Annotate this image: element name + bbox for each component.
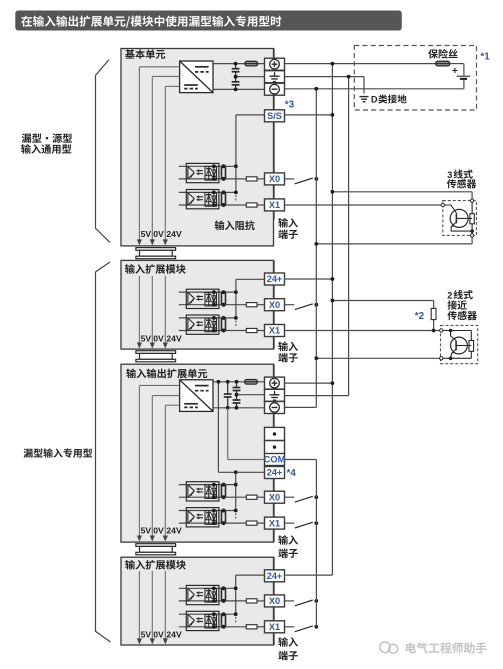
24V bus rail [331,64,333,575]
24V bus to 24+ (module 2) [285,574,332,576]
wire 24V bus to 3-wire sensor [332,191,472,193]
terminal X0 (module 2) [265,595,285,607]
svg-text:24V: 24V [166,333,182,343]
D-class earth symbol [360,96,369,98]
wire - output (block3) [213,407,265,409]
label input terminals (module 2) [278,637,288,647]
power supply U2 (I/O expansion unit) [180,380,213,412]
3-wire sensor internals [471,201,473,236]
rails 5V 0V 24V with arrows (module 1) [138,276,140,347]
svg-text:X0: X0 [269,492,280,502]
wire + output to terminal [213,63,265,65]
capacitor column 2 (block3) [236,382,238,388]
wire + (I/O unit) to 24V bus [285,382,333,384]
input switch X1 (module 2) [285,626,295,628]
earth bus to ground terminal (I/O unit) [285,395,349,397]
svg-text:COM: COM [264,455,286,465]
block: input expansion module 1 [121,260,274,349]
svg-text:X1: X1 [269,622,280,632]
svg-text:5V: 5V [141,333,152,343]
capacitor column 1 (block3) [227,382,229,394]
capacitor column (basic unit) [235,64,237,69]
svg-text:0V: 0V [153,629,164,639]
terminal - (I/O unit) [265,402,285,414]
svg-text:24V: 24V [166,629,182,639]
title bar [15,11,402,31]
terminal 24+ (module 1) [265,273,285,285]
battery B1 [463,64,465,76]
wire + (basic unit) to fuse circuit [285,63,436,65]
3-wire sensor box [443,201,477,236]
label input impedance [215,221,225,231]
terminal strip (module 1) [273,260,275,273]
optocoupler input X0 (I/O unit) [179,484,236,486]
block: basic unit [121,49,274,246]
wire 0V bus to 3-wire sensor [316,243,472,245]
svg-text:D: D [371,95,378,105]
label input terminals (basic unit) [278,218,288,228]
svg-text:0V: 0V [153,229,164,239]
svg-text:24V: 24V [166,229,182,239]
svg-text:+: + [452,66,458,77]
COM feed vertical from 0V (block3) [227,408,229,460]
svg-text:X0: X0 [269,300,280,310]
wire 0V bus to 2-wire sensor [316,357,441,359]
terminal + (basic unit) [265,58,285,70]
fuse symbol [436,61,450,66]
rails 5V 0V 24V with arrows (module 2) [138,571,140,643]
power supply U1 (basic unit) [180,61,213,93]
terminal COM [265,454,285,466]
terminal S/S [265,110,285,122]
block: I/O expansion unit [121,364,274,542]
wire 24V bus to bleeder resistor [332,300,433,302]
watermark text [406,642,416,653]
wire + output (block3) [213,381,265,383]
svg-text:X0: X0 [269,174,280,184]
fuse on + wire (block3) [245,380,258,385]
terminal + (I/O unit) [265,377,285,389]
earth bus rail [348,77,350,396]
spare terminal dot 2 [265,441,285,454]
input switch X0 (I/O unit) [285,496,295,498]
wire ground (basic unit) to D-class earth [285,76,365,78]
input switch X0 (module 2) [285,600,295,602]
terminal 24+ (I/O unit) [265,467,285,479]
wire 0V (block3) [152,395,179,397]
wire ground mid (basic unit) [236,76,265,78]
terminal X1 (basic unit) [265,199,285,211]
label: sink/source input universal type [22,133,31,143]
optocoupler input X0 (module 1) [179,291,236,293]
wire 5V (block3) [139,384,179,386]
watermark logo [380,642,391,653]
wire 5V from power supply to rail [139,66,179,68]
24+ distribution wire and rail (module 2) [236,574,265,576]
label input terminals (I/O unit) [278,535,288,545]
svg-text:24+: 24+ [267,468,283,478]
spare terminal dot 1 [265,427,285,440]
wire S/S to 24V bus [285,114,333,116]
rails 5V 0V 24V with arrows (basic unit) [138,67,140,244]
svg-text:24+: 24+ [267,274,283,284]
optocoupler input X1 (module 2) [179,613,236,615]
switch common rail [315,460,317,627]
input switch X1 (I/O unit) [285,522,295,524]
junction dots on cap column [234,62,238,66]
terminal strip (module 2) [273,557,275,570]
dashed box: external supply circuit [354,46,476,111]
terminal X1 (module 1) [265,325,285,337]
svg-text:5V: 5V [141,526,152,536]
label: sink input dedicated type [24,448,33,457]
wire ground mid (block3) [237,394,265,396]
bleeder resistor R*2 [431,308,436,319]
svg-text:5V: 5V [141,229,152,239]
rails 5V 0V 24V with arrows (block3) [138,385,140,540]
optocoupler input X0 (module 2) [179,587,236,589]
svg-text:0V: 0V [153,526,164,536]
0V bus rail [315,89,317,408]
2-wire sensor connection circles [440,329,443,332]
24+ distribution wire and rail (I/O unit) [218,471,264,473]
expansion cable connector 2 [136,351,176,354]
2-wire sensor box [441,325,478,363]
COM feed wire to COM terminal [228,459,265,461]
wire 0V from power supply to rail [152,75,179,77]
optocoupler input X0 (basic unit) [179,165,236,167]
terminal X1 (module 2) [265,621,285,633]
svg-text:24V: 24V [166,526,182,536]
wire 24+ (module 1) to 24V bus [285,278,333,280]
block: input expansion module 2 [121,557,274,645]
input switch X0 (basic unit) [285,178,295,180]
wire - output to terminal [213,88,265,90]
S/S distribution wire and rail (basic unit) [236,114,265,116]
svg-text:X0: X0 [269,596,280,606]
expansion cable connector 1 [136,248,176,251]
terminal X0 (I/O unit) [265,491,285,503]
fuse on + wire (basic unit) [245,61,258,66]
svg-text:X1: X1 [269,200,280,210]
optocoupler input X1 (basic unit) [179,191,236,193]
COM wire to switch rail [284,459,317,461]
optocoupler input X1 (module 1) [179,317,236,319]
svg-text:*1: *1 [480,52,490,63]
svg-text:X1: X1 [269,326,280,336]
terminal X0 (basic unit) [265,173,285,185]
svg-text:24+: 24+ [267,571,283,581]
svg-text:2: 2 [447,290,452,300]
24+ distribution wire and rail (module 1) [236,278,265,280]
wire - (basic unit) to battery [285,88,464,90]
terminal ground (basic unit) [265,71,285,83]
svg-text:*3: *3 [285,100,295,111]
0V bus to - terminal (I/O unit) [285,406,317,408]
terminal - (basic unit) [265,83,285,95]
label input terminals (module 1) [278,342,288,352]
input switch X0 (module 1) [285,304,295,306]
wire 24V (block3) [165,404,179,406]
svg-text:0V: 0V [153,333,164,343]
terminal strip (I/O unit) [273,364,275,377]
svg-text:5V: 5V [141,629,152,639]
svg-text:S/S: S/S [267,111,282,121]
label fuse [428,49,438,58]
expansion cable connector 3 [136,544,176,547]
wire X1 (basic unit) to 3-wire sensor [285,204,443,206]
optocoupler input X1 (I/O unit) [179,510,236,512]
terminal X0 (module 1) [265,299,285,311]
wire fuse to battery [450,63,464,65]
svg-text:*4: *4 [287,468,297,479]
wire 24V from power supply to rail [165,85,179,87]
24V feed vertical to 24+ terminal (block3) [217,382,219,473]
terminal ground (I/O unit) [265,389,285,401]
svg-text:3: 3 [447,170,452,180]
svg-text:*2: *2 [415,311,425,322]
left bracket: sink/source universal type [96,60,111,243]
wire X1 (module 1) to 2-wire sensor [285,330,442,332]
terminal X1 (I/O unit) [265,517,285,529]
2-wire sensor internals [441,330,471,332]
3-wire sensor connection circles [441,203,444,206]
svg-text:X1: X1 [269,518,280,528]
left bracket: sink input dedicated type [96,262,111,642]
terminal strip (basic unit) [273,49,275,59]
terminal 24+ (module 2) [265,570,285,582]
